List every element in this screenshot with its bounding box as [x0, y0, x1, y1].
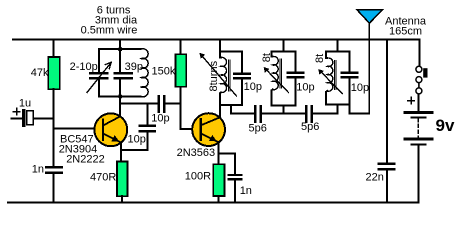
- wire Q1 base horizontal: [54, 128, 96, 130]
- inductor L4 8t: [318, 58, 342, 94]
- wire 1u to base node: [34, 117, 54, 119]
- node tank bottom junction: [118, 94, 123, 99]
- wire tank2 top: [271, 50, 295, 52]
- inductor L3 8t: [264, 57, 289, 93]
- wire 39p bottom: [119, 79, 121, 96]
- capacitor C8 5p6: [255, 106, 261, 121]
- wire tank2 drop: [283, 106, 285, 114]
- wire rail to 150k: [179, 40, 181, 55]
- svg-text:8t: 8t: [314, 54, 326, 63]
- wire 1n to bottom rail: [53, 174, 55, 203]
- svg-text:10p: 10p: [244, 81, 262, 93]
- wire Q2 collector up: [219, 105, 221, 117]
- switch S1 press button: [416, 66, 428, 94]
- svg-text:39p: 39p: [125, 61, 143, 73]
- wire osc tank top: [99, 48, 141, 50]
- inductor L2 8 turns: [199, 53, 236, 96]
- capacitor C6 1n emitter bypass: [229, 175, 241, 179]
- resistor R3 150k: [176, 54, 187, 87]
- wire tank3 top: [326, 50, 349, 52]
- wire 39p top: [119, 49, 121, 72]
- resistor R4 100R: [213, 164, 224, 196]
- svg-text:9v: 9v: [436, 116, 455, 135]
- wire tank3 bottom: [326, 104, 349, 106]
- wire feedback branch upper: [146, 104, 148, 125]
- battery B1 9v: [405, 97, 432, 144]
- wire rail to tank3 feed: [336, 40, 338, 52]
- wire 1n bypass to bottom rail: [234, 180, 236, 202]
- capacitor VC1 2-10p variable: [90, 73, 107, 78]
- wire tank3 right lower: [348, 79, 350, 105]
- capacitor C4 10p coupling: [159, 96, 165, 111]
- wire tank3 left lower stub: [326, 91, 327, 105]
- wire Q2 base horizontal: [180, 128, 193, 130]
- wire battery to bottom rail: [417, 146, 419, 203]
- wire tank3 right upper: [348, 51, 350, 71]
- wire rail to tank2 feed: [283, 40, 285, 52]
- svg-text:10p: 10p: [296, 81, 314, 93]
- inductor L1 6 turns coil: [141, 49, 148, 97]
- wire coupling path segment 2: [262, 113, 305, 115]
- wire Q1 collector up: [119, 97, 121, 117]
- transistor Q1 BC547: [94, 113, 127, 146]
- wire tank3 left upper stub: [326, 51, 327, 58]
- capacitor C1 1u electrolytic: [14, 108, 34, 125]
- wire tank2 right lower: [295, 79, 297, 106]
- wire osc tank left upper: [98, 49, 100, 72]
- wire tank1 bottom: [220, 104, 242, 106]
- wire tank1 right lower: [241, 80, 243, 106]
- capacitor C10 10p tank2: [288, 73, 303, 78]
- capacitor C2 1n: [46, 167, 62, 172]
- wire antenna feed horizontal: [349, 112, 369, 114]
- svg-text:8turns: 8turns: [208, 60, 220, 91]
- svg-text:1n: 1n: [32, 164, 44, 176]
- wire rail to 22n: [386, 40, 388, 163]
- wire tank1 top: [220, 50, 242, 52]
- wire tank1 right upper: [241, 51, 243, 72]
- resistor R2 470R: [117, 162, 128, 197]
- wire tank3 output down: [348, 105, 350, 114]
- label 6 turns / 3mm dia / 0.5mm wire: [81, 4, 138, 36]
- wire tank2 left upper stub: [271, 51, 272, 56]
- svg-text:5p6: 5p6: [301, 121, 319, 133]
- svg-text:100R: 100R: [185, 171, 211, 183]
- svg-text:0.5mm wire: 0.5mm wire: [81, 24, 138, 36]
- top rail V+: [13, 39, 419, 41]
- wire switch to battery: [418, 94, 420, 111]
- svg-text:8t: 8t: [261, 53, 273, 62]
- svg-text:10p: 10p: [128, 134, 146, 146]
- wire tank1 drop to coupling path: [230, 105, 232, 114]
- svg-text:5p6: 5p6: [249, 123, 267, 135]
- wire coupling horizontal right: [166, 103, 181, 105]
- wire Q2 emitter down: [218, 142, 220, 164]
- antenna symbol: [357, 10, 382, 114]
- svg-text:47k: 47k: [31, 67, 49, 79]
- capacitor C7 10p tank1: [234, 74, 250, 79]
- wire coupling path segment 3: [313, 113, 337, 115]
- wire 47k to base corner: [53, 89, 55, 129]
- wire tank2 left lower stub: [271, 90, 272, 106]
- wire tank2 right upper: [295, 51, 297, 71]
- wire junction down from tank bottom: [119, 97, 121, 104]
- wire audio input stub: [12, 117, 22, 119]
- wire rail to osc tank: [119, 40, 121, 50]
- wire osc tank bottom: [99, 96, 141, 98]
- bottom rail 0V: [8, 202, 418, 204]
- wire tank1 left upper stub: [220, 51, 221, 57]
- svg-text:2-10p: 2-10p: [70, 61, 98, 73]
- svg-text:470R: 470R: [90, 171, 116, 183]
- wire tank1 left lower stub: [220, 92, 221, 105]
- svg-text:2N3563: 2N3563: [177, 147, 216, 159]
- svg-text:1n: 1n: [240, 185, 252, 197]
- capacitor C9 5p6: [306, 106, 312, 121]
- capacitor C5 10p feedback: [140, 126, 155, 131]
- wire rail to tank1 left: [219, 40, 221, 52]
- svg-text:1u: 1u: [19, 97, 31, 109]
- wire 150k to Q2 base: [179, 87, 181, 129]
- wire Q2 emitter to 1n: [219, 152, 235, 154]
- transistor Q2 2N3563: [192, 113, 225, 146]
- wire emitter junction horizontal: [121, 149, 147, 151]
- svg-text:2N2222: 2N2222: [66, 154, 105, 166]
- wire feedback branch lower: [146, 133, 148, 150]
- wire 22n to bottom rail: [386, 171, 388, 203]
- node tank top junction: [118, 47, 123, 52]
- wire coupling path segment 1: [231, 113, 254, 115]
- svg-text:22n: 22n: [366, 171, 384, 183]
- wire Q1 emitter down: [120, 143, 122, 162]
- resistor R1 47k: [48, 57, 60, 89]
- wire rail end down to switch: [418, 40, 420, 66]
- svg-text:10p: 10p: [351, 82, 369, 94]
- wire 470R to bottom rail: [121, 196, 123, 202]
- capacitor C11 10p tank3: [342, 73, 357, 78]
- wire osc tank left lower: [98, 79, 100, 96]
- wire tank3 drop: [336, 105, 338, 114]
- capacitor C3 39p: [115, 73, 132, 78]
- wire rail to 47k: [53, 40, 55, 57]
- wire tank2 bottom: [271, 105, 295, 107]
- capacitor C12 22n: [379, 164, 394, 170]
- wire base node down to 1n: [53, 129, 55, 167]
- wire coupling horizontal left: [120, 103, 157, 105]
- svg-text:150k: 150k: [152, 66, 176, 78]
- svg-text:10p: 10p: [151, 113, 169, 125]
- wire 100R to bottom rail: [218, 196, 220, 203]
- svg-text:165cm: 165cm: [389, 26, 422, 38]
